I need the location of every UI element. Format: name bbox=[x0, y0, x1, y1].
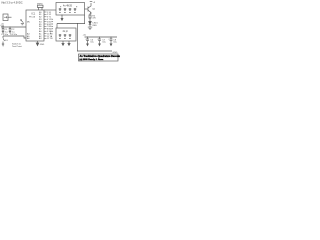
module box A bbox=[56, 3, 85, 16]
ground under U1 bbox=[36, 41, 39, 46]
svg-text:4MHz: 4MHz bbox=[37, 4, 43, 6]
wire box A to Q1 base bbox=[85, 8, 89, 10]
wire box A right down bbox=[84, 15, 86, 24]
resistor R5 bbox=[89, 14, 91, 22]
note: switch to test point bbox=[12, 42, 22, 48]
net arrows on U1 pins bbox=[52, 19, 54, 32]
svg-text:10u: 10u bbox=[90, 42, 93, 44]
svg-text:GND: GND bbox=[113, 52, 118, 54]
connector J1 bbox=[3, 14, 8, 21]
title block bbox=[79, 54, 119, 61]
svg-text:4x pt: 4x pt bbox=[63, 30, 69, 33]
svg-text:C4 10u: C4 10u bbox=[10, 34, 18, 36]
VDD rail bbox=[1, 26, 26, 28]
switch S2 (reset) bbox=[21, 20, 24, 24]
title note bbox=[1, 0, 23, 4]
svg-text:Vdd: Vdd bbox=[1, 26, 5, 28]
capacitor C7 bbox=[98, 37, 101, 46]
svg-text:Switch to: Switch to bbox=[12, 42, 22, 45]
capacitor C8 bbox=[110, 37, 113, 46]
wire U1 to module A bbox=[44, 9, 56, 11]
capacitor C6 bbox=[86, 37, 89, 46]
IC U1 box bbox=[26, 10, 44, 41]
U1 right pins bbox=[44, 12, 47, 38]
svg-text:12 YB: 12 YB bbox=[47, 38, 53, 40]
capacitor C2 bbox=[9, 27, 12, 33]
svg-text:C3 10u: C3 10u bbox=[1, 34, 9, 36]
bus wire horizontal bbox=[57, 24, 85, 29]
ground stub under module A bbox=[61, 15, 63, 20]
switch S1 wire bbox=[3, 36, 26, 38]
+5V top bbox=[90, 1, 93, 3]
svg-text:4x 4N35: 4x 4N35 bbox=[63, 4, 73, 7]
long ground wire bbox=[77, 24, 79, 52]
switch S1 bbox=[2, 36, 5, 46]
junction dots bbox=[62, 15, 112, 52]
svg-text:(c) 2003 Randy J. Rasa: (c) 2003 Randy J. Rasa bbox=[80, 59, 104, 61]
transistor Q1 bbox=[88, 3, 91, 14]
svg-text:GND: GND bbox=[40, 44, 45, 46]
module box B bbox=[56, 28, 76, 41]
svg-text:Test Point: Test Point bbox=[12, 45, 22, 48]
LED1 bbox=[89, 22, 92, 27]
svg-text:10u: 10u bbox=[102, 42, 105, 44]
crystal X1 bbox=[38, 5, 44, 10]
svg-text:IC1: IC1 bbox=[32, 13, 36, 16]
box B bottom stubs with ground arrows bbox=[62, 41, 70, 46]
svg-text:RED: RED bbox=[93, 25, 98, 27]
wire J1 out bbox=[8, 16, 12, 18]
svg-text:An Trackball-to-Quadrature Dec: An Trackball-to-Quadrature Decoder bbox=[80, 55, 121, 58]
ground under LED bbox=[88, 26, 92, 29]
svg-text:MC: MC bbox=[27, 21, 31, 23]
svg-text:PIC16: PIC16 bbox=[29, 16, 36, 18]
svg-text:10u: 10u bbox=[113, 42, 116, 44]
capacitor C1 bbox=[2, 27, 5, 33]
svg-text:Vdd 3.3 to 4.5VDC: Vdd 3.3 to 4.5VDC bbox=[1, 0, 23, 4]
+5 rail bbox=[85, 36, 118, 38]
ground rail bbox=[78, 50, 113, 52]
